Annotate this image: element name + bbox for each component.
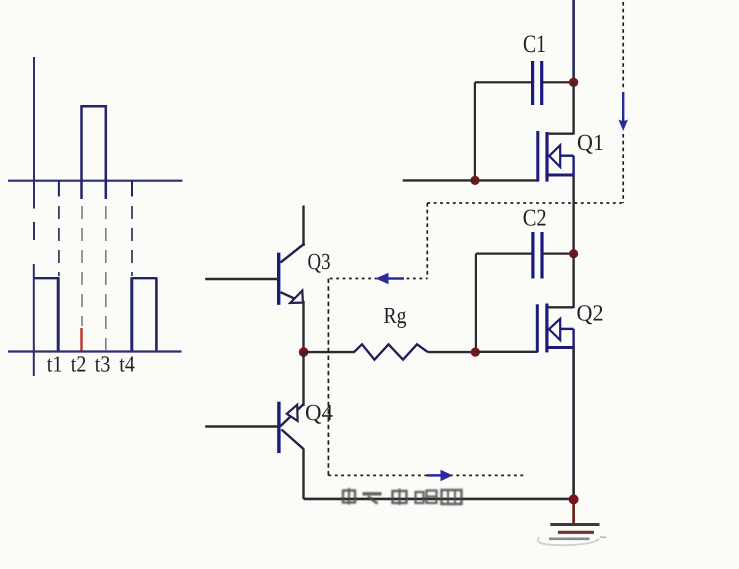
svg-text:Q4: Q4 <box>305 400 333 425</box>
ground smudge <box>538 537 599 545</box>
dotted feedback line right vertical upper <box>622 2 624 90</box>
wire Q1 gate lead <box>403 179 538 181</box>
wire gate line right segment <box>428 351 476 353</box>
svg-text:Q1: Q1 <box>577 130 604 155</box>
lower waveform right pulse top <box>132 277 157 279</box>
lower axis vertical <box>33 264 35 376</box>
dashed line t4 <box>131 206 133 276</box>
wire rail Q2 source to ground node <box>572 348 575 500</box>
svg-text:t3: t3 <box>95 352 111 377</box>
dotted feedback line bottom horizontal <box>328 474 524 476</box>
current arrow down <box>618 92 628 131</box>
dotted feedback line left vertical <box>327 279 329 476</box>
node dot gate wire left <box>299 347 309 357</box>
capacitor C2 plates <box>533 232 542 279</box>
svg-text:C2: C2 <box>523 205 547 231</box>
node dot at C1/rail <box>569 78 578 87</box>
ground bar 3 <box>549 537 590 540</box>
wire rail Q1 source to C2 <box>572 175 574 254</box>
svg-text:t1: t1 <box>47 352 63 377</box>
lower waveform right pulse fall edge <box>155 277 158 351</box>
capacitor C1 right wire <box>542 81 574 83</box>
transistor Q4 <box>205 352 304 499</box>
dashed line t2 <box>81 206 83 326</box>
current arrow right <box>427 470 453 481</box>
node dot at Q1 gate wire <box>470 176 479 185</box>
lower waveform right pulse rise edge <box>130 277 133 351</box>
dotted feedback line middle horizontal <box>330 278 428 280</box>
watermark defaced text <box>343 488 462 505</box>
wire rail C1 to Q1 drain <box>572 82 574 134</box>
dotted feedback line top horizontal <box>427 202 623 204</box>
upper axis vertical <box>33 57 35 209</box>
node dot at C2/rail <box>569 249 578 258</box>
capacitor C2 right wire <box>542 253 574 255</box>
capacitor C2 left wire <box>476 253 533 255</box>
dotted feedback line middle vertical <box>426 203 428 279</box>
lower waveform left pulse fall edge <box>57 277 60 351</box>
node dot at C2 leg <box>471 348 480 357</box>
svg-text:Rg: Rg <box>384 303 407 328</box>
dashed line t1 <box>58 206 60 276</box>
svg-text:C1: C1 <box>523 31 546 58</box>
wire bottom ground rail <box>304 498 574 501</box>
resistor Rg <box>354 344 428 359</box>
MOSFET Q1 <box>538 131 574 182</box>
tick t4 <box>131 181 133 197</box>
wire rail C2 to Q2 drain <box>572 254 574 308</box>
svg-text:t2: t2 <box>71 352 87 377</box>
ground bar 2 <box>558 531 594 534</box>
MOSFET Q2 <box>537 304 573 353</box>
red mark at t2 <box>80 328 82 352</box>
lower axis horizontal <box>8 350 182 352</box>
dotted feedback line right vertical lower <box>622 134 624 203</box>
capacitor C1 plates <box>533 61 542 105</box>
top supply rail <box>572 0 575 82</box>
lower waveform left pulse top <box>34 277 60 279</box>
ground bar 1 <box>550 523 599 526</box>
transistor Q3 <box>205 206 304 353</box>
svg-text:t4: t4 <box>119 352 135 377</box>
upper waveform pulse <box>82 106 106 199</box>
wire C2 left leg down <box>475 254 477 352</box>
upper axis horizontal <box>8 180 183 182</box>
svg-text:Q3: Q3 <box>308 249 331 274</box>
ground stem <box>572 499 575 524</box>
svg-text:Q2: Q2 <box>577 300 604 325</box>
dashed line t3 <box>105 206 107 350</box>
wire C1 left leg down <box>474 82 476 180</box>
tick t1 <box>58 181 60 197</box>
current arrow left <box>376 273 405 284</box>
wire gate line left segment <box>304 351 355 353</box>
wire to Q2 gate <box>475 351 537 353</box>
capacitor C1 left wire <box>475 81 533 83</box>
node dot ground <box>569 494 579 504</box>
axis dash segment <box>33 222 35 240</box>
